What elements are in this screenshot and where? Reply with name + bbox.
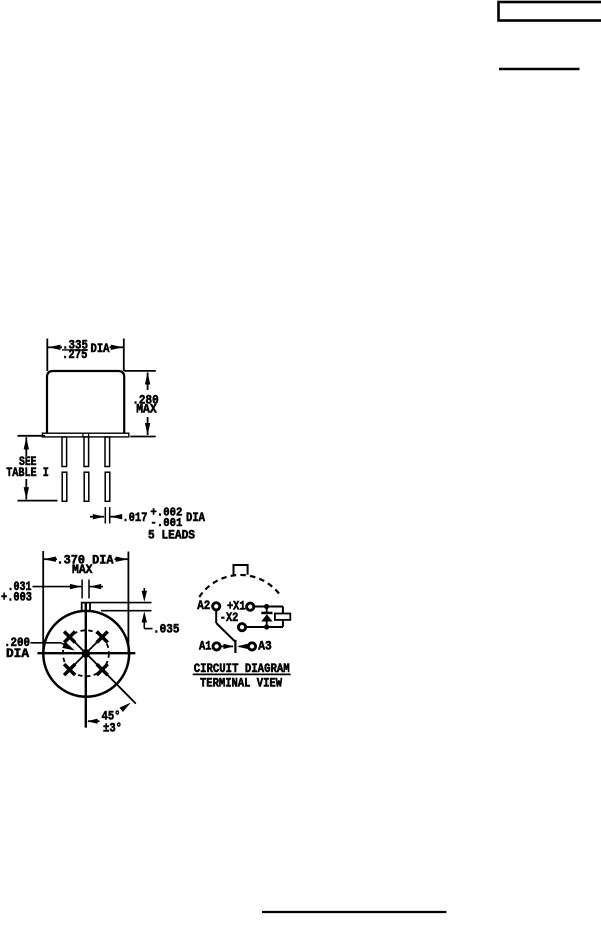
svg-text:TABLE I: TABLE I	[6, 466, 49, 480]
svg-text:MAX: MAX	[136, 403, 157, 417]
svg-text:A2: A2	[197, 599, 210, 613]
svg-text:A1: A1	[199, 639, 212, 653]
svg-text:±3°: ±3°	[103, 722, 122, 736]
svg-text:-X2: -X2	[220, 611, 239, 625]
svg-text:DIA: DIA	[6, 647, 29, 661]
svg-text:DIA: DIA	[186, 511, 205, 525]
svg-text:+.003: +.003	[1, 590, 32, 604]
svg-text:.275: .275	[62, 348, 88, 362]
svg-text:DIA: DIA	[91, 342, 110, 356]
svg-text:MAX: MAX	[72, 563, 93, 577]
svg-text:.017: .017	[122, 511, 147, 525]
svg-text:5 LEADS: 5 LEADS	[148, 528, 195, 542]
svg-text:TERMINAL VIEW: TERMINAL VIEW	[200, 676, 282, 691]
svg-text:.035: .035	[153, 623, 180, 637]
svg-text:A3: A3	[258, 639, 272, 653]
